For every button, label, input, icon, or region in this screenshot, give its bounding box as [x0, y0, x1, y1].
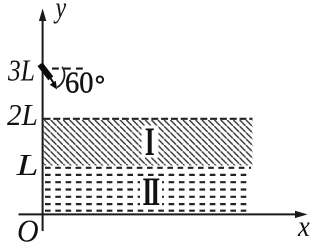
region II dash row 3 — [45, 181, 251, 183]
x axis — [19, 213, 299, 215]
white halo behind label II — [140, 177, 162, 208]
degree symbol — [97, 76, 103, 82]
svg-text:y: y — [53, 0, 67, 24]
velocity vector thick bar — [40, 64, 51, 78]
velocity vector shaft — [50, 78, 55, 85]
svg-text:O: O — [17, 213, 39, 242]
svg-text:x: x — [297, 211, 310, 242]
svg-text:I: I — [145, 120, 155, 164]
y axis arrowhead — [39, 9, 46, 22]
white halo behind label I — [142, 126, 159, 158]
region II dash row 2 — [45, 174, 251, 176]
svg-text:2L: 2L — [7, 97, 38, 132]
svg-text:L: L — [15, 147, 38, 182]
dashed boundary line y=L (first dash row of region II) — [45, 167, 251, 169]
region II dash row 6 — [45, 203, 251, 205]
region II dash row 7 — [45, 210, 251, 212]
region I hatched band — [44, 120, 253, 165]
y axis — [42, 18, 44, 231]
dashed boundary line y=2L — [44, 118, 253, 120]
60 degree angle arc — [57, 67, 64, 88]
region II dash row 4 — [45, 188, 251, 190]
dashed horizontal reference line at 3L — [52, 68, 84, 70]
svg-text:60: 60 — [65, 65, 94, 100]
velocity vector arrowhead — [50, 81, 57, 90]
svg-text:3L: 3L — [7, 54, 35, 88]
region II dash row 5 — [45, 196, 251, 198]
x axis arrowhead — [295, 211, 308, 218]
svg-text:I: I — [150, 170, 160, 214]
